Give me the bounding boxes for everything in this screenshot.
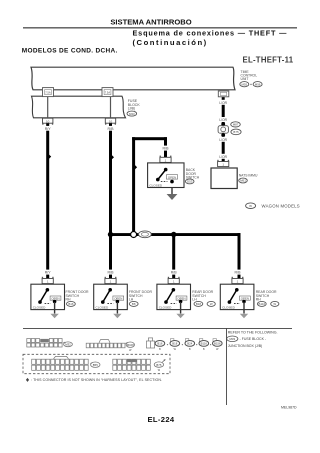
connector pin 1 (front door switch LH)	[105, 277, 117, 284]
svg-text:7.5A: 7.5A	[45, 91, 51, 95]
svg-text:CLOSED: CLOSED	[159, 305, 172, 309]
connector B24 id	[185, 339, 188, 342]
svg-text:D53: D53	[187, 180, 193, 184]
connector M33	[127, 111, 137, 116]
label R/B (rear door switch RH)	[231, 270, 244, 275]
svg-text:M61: M61	[240, 179, 246, 183]
label R/Y	[42, 126, 55, 131]
label R/Y (lower)	[42, 270, 55, 275]
time control unit U1 (band, continued from previous page)	[31, 67, 235, 90]
connector M56	[253, 82, 262, 87]
svg-text:WAGON MODELS: WAGON MODELS	[262, 204, 300, 209]
connector B16 id	[155, 341, 165, 347]
connector B16	[67, 301, 76, 306]
svg-text:OPEN: OPEN	[177, 297, 185, 301]
svg-text:MODELOS DE COND. DCHA.: MODELOS DE COND. DCHA.	[22, 47, 118, 54]
svg-text:B75: B75	[233, 130, 239, 134]
fuse 7.5A (pin 1)	[43, 88, 54, 97]
connector M33 ref	[227, 336, 238, 342]
splice circle (back door branch)	[131, 232, 137, 238]
connector B156 id	[213, 339, 216, 342]
wire R/Y (J/B to front door switch RH)	[46, 123, 49, 279]
svg-text:CLOSED: CLOSED	[149, 184, 162, 188]
connector B116	[257, 301, 266, 306]
connector B55 id	[90, 362, 93, 365]
wagon models note	[246, 203, 256, 209]
rear door switch LH S3	[157, 284, 191, 313]
rear door switch RH S4	[220, 284, 254, 313]
label R/B (back door)	[159, 146, 172, 151]
svg-text:W: W	[129, 349, 132, 352]
legend connector M32 face view	[27, 339, 62, 348]
svg-text:10: 10	[109, 119, 113, 123]
contact node	[170, 180, 174, 184]
svg-text:B156: B156	[214, 342, 221, 346]
svg-text:UNIT: UNIT	[241, 77, 249, 81]
open-contact dashes	[161, 181, 168, 183]
bus wire (door switch ground bus)	[109, 233, 241, 236]
svg-text:CLOSED: CLOSED	[96, 305, 109, 309]
svg-text:(J/B): (J/B)	[128, 107, 135, 111]
svg-text:NATS IMMU: NATS IMMU	[239, 174, 258, 178]
connector M61	[239, 178, 248, 183]
connector pin 1 (rear door switch RH)	[232, 277, 244, 284]
svg-text:OPEN: OPEN	[51, 297, 59, 301]
svg-text:L/OR: L/OR	[219, 101, 227, 105]
svg-text:M33: M33	[229, 337, 235, 341]
svg-text:M87: M87	[233, 123, 239, 127]
dashed note box	[23, 354, 170, 373]
svg-text:CLOSED: CLOSED	[33, 305, 46, 309]
connector M55	[240, 82, 249, 87]
svg-text:- FUSE BLOCK -: - FUSE BLOCK -	[240, 337, 267, 341]
legend 1-pin connector icon	[146, 338, 154, 348]
inline connector node	[221, 122, 225, 126]
svg-text:R/B: R/B	[235, 271, 242, 275]
svg-text:B75: B75	[156, 363, 161, 367]
J/B exit terminal (R/Y)	[47, 97, 48, 119]
svg-text:R/B: R/B	[171, 271, 178, 275]
connector pin 1 (front door switch RH)	[42, 277, 54, 284]
svg-text:B: B	[203, 348, 205, 351]
svg-text:M32: M32	[65, 343, 71, 347]
label L/OR	[216, 154, 231, 159]
connector B18 id	[171, 339, 174, 342]
svg-text:B116: B116	[259, 302, 266, 306]
svg-text:10: 10	[46, 119, 50, 123]
connector D53	[185, 179, 194, 184]
front door switch LH name	[129, 290, 153, 302]
svg-text:R/B: R/B	[108, 127, 115, 131]
wire to ground	[171, 188, 172, 195]
front door switch RH name	[66, 290, 90, 302]
label R/B	[104, 126, 117, 131]
pin L/OR of time control unit	[218, 91, 229, 97]
ground (front door switch LH)	[113, 314, 121, 318]
svg-text:B: B	[189, 348, 191, 351]
svg-text:L/OR: L/OR	[219, 118, 227, 122]
svg-text:B8: B8	[132, 302, 136, 306]
rear door switch RH name	[256, 290, 277, 302]
svg-text:M56: M56	[255, 82, 261, 86]
svg-text:CLOSED: CLOSED	[222, 305, 235, 309]
svg-text:B24: B24	[187, 342, 192, 346]
label L/OR	[216, 137, 231, 142]
ground (rear door switch RH)	[240, 314, 248, 318]
NATS IMMU unit	[211, 168, 237, 189]
svg-text:SISTEMA ANTIRROBO: SISTEMA ANTIRROBO	[110, 18, 191, 27]
svg-text:R/B: R/B	[163, 147, 170, 151]
svg-text:EL-THEFT-11: EL-THEFT-11	[243, 56, 294, 65]
legend footnote	[26, 378, 29, 382]
wagon note marker	[207, 301, 215, 306]
OPEN label	[166, 175, 177, 179]
fuse 7.5A (pin 2)	[102, 88, 113, 97]
connector M87	[231, 122, 241, 127]
svg-text:7.5A: 7.5A	[105, 91, 111, 95]
svg-text:R/Y: R/Y	[45, 127, 52, 131]
header rule	[23, 27, 297, 28]
svg-text:R/B: R/B	[108, 271, 115, 275]
svg-text:B16: B16	[157, 342, 162, 346]
rear door switch LH name	[192, 290, 213, 302]
label L/OR	[216, 100, 231, 105]
corner drop wire to rear door switch RH	[238, 233, 241, 279]
label L/OR	[216, 117, 231, 122]
wire R/B (J/B to front door switch LH / bus)	[109, 123, 112, 279]
junction at rear door switch LH drop	[171, 232, 176, 237]
flow arrow	[134, 164, 138, 171]
svg-text:JUNCTION BOX (J/B): JUNCTION BOX (J/B)	[228, 344, 262, 348]
svg-text:OPEN: OPEN	[168, 175, 176, 179]
inline connector oval on bus	[139, 231, 152, 238]
connector B18	[194, 301, 203, 306]
front door switch LH S2	[94, 284, 128, 313]
ground (body ground)	[167, 194, 178, 200]
svg-text:B18: B18	[172, 342, 177, 346]
svg-text:L/OR: L/OR	[219, 155, 227, 159]
connector pin 1 (rear door switch LH)	[168, 277, 180, 284]
svg-text:OPEN: OPEN	[241, 297, 249, 301]
svg-text:W: W	[273, 302, 276, 306]
svg-text:: THIS CONNECTOR IS NOT SHOWN: : THIS CONNECTOR IS NOT SHOWN IN “HARNES…	[31, 378, 162, 382]
svg-text:W: W	[174, 348, 177, 351]
connector B75	[231, 129, 241, 135]
back door switch S5	[148, 163, 184, 188]
connector M108 id	[125, 342, 128, 345]
ground (rear door switch LH)	[176, 314, 184, 318]
svg-text:MEL987D: MEL987D	[281, 405, 297, 409]
svg-text:EL-224: EL-224	[148, 415, 175, 424]
legend connector M108 face view	[86, 340, 125, 348]
label R/B (rear door switch LH)	[168, 270, 181, 275]
connector pin 1 (back door switch)	[160, 157, 171, 162]
svg-text:W: W	[216, 348, 219, 351]
svg-text:Esquema de conexiones — THEFT: Esquema de conexiones — THEFT —	[133, 28, 288, 37]
svg-text:B116: B116	[201, 342, 208, 346]
flow arrow	[48, 153, 52, 160]
svg-text:R/Y: R/Y	[45, 271, 52, 275]
svg-text:M108: M108	[127, 343, 134, 347]
svg-text:OPEN: OPEN	[114, 297, 122, 301]
J/B exit terminal (R/B)	[110, 97, 111, 119]
drop wire to rear door switch LH	[172, 235, 175, 279]
svg-text:B55: B55	[93, 363, 98, 367]
svg-text:(Continuación): (Continuación)	[133, 38, 208, 47]
inline connector M87-B75	[218, 126, 228, 134]
fuse block J/B band	[32, 96, 126, 118]
connector B116 id	[199, 339, 202, 342]
legend top rule	[23, 327, 292, 330]
NATS branch wire L/OR	[222, 97, 225, 123]
switch lever	[158, 170, 166, 180]
junction at R/B wire	[108, 232, 113, 237]
pin node	[164, 168, 168, 172]
label R/B (lower)	[104, 270, 117, 275]
legend connector B75 face view	[113, 359, 150, 370]
svg-text:REFER TO THE FOLLOWING.: REFER TO THE FOLLOWING.	[228, 331, 278, 335]
connector pin 1 (NATS IMMU)	[218, 162, 229, 167]
svg-text:B: B	[159, 348, 161, 351]
wagon note marker	[271, 301, 279, 306]
svg-text:W: W	[210, 302, 213, 306]
front door switch RH S1	[31, 284, 65, 313]
svg-text:L/OR: L/OR	[219, 138, 227, 142]
svg-text:W: W	[249, 204, 252, 208]
svg-text:M55: M55	[241, 82, 247, 86]
connector B8	[129, 301, 138, 306]
svg-text:W: W	[158, 369, 161, 372]
connector B75 id	[154, 362, 163, 367]
wire L/OR (lower)	[222, 137, 225, 162]
svg-text:B16: B16	[68, 302, 74, 306]
svg-text:M33: M33	[129, 112, 135, 116]
svg-text:B18: B18	[196, 302, 202, 306]
legend divider	[225, 328, 228, 405]
ground (front door switch RH)	[50, 314, 58, 318]
connector M32 id	[63, 342, 66, 345]
flow arrow	[111, 154, 115, 161]
legend connector B55 face view	[32, 356, 89, 370]
back door branch wire	[132, 137, 135, 231]
